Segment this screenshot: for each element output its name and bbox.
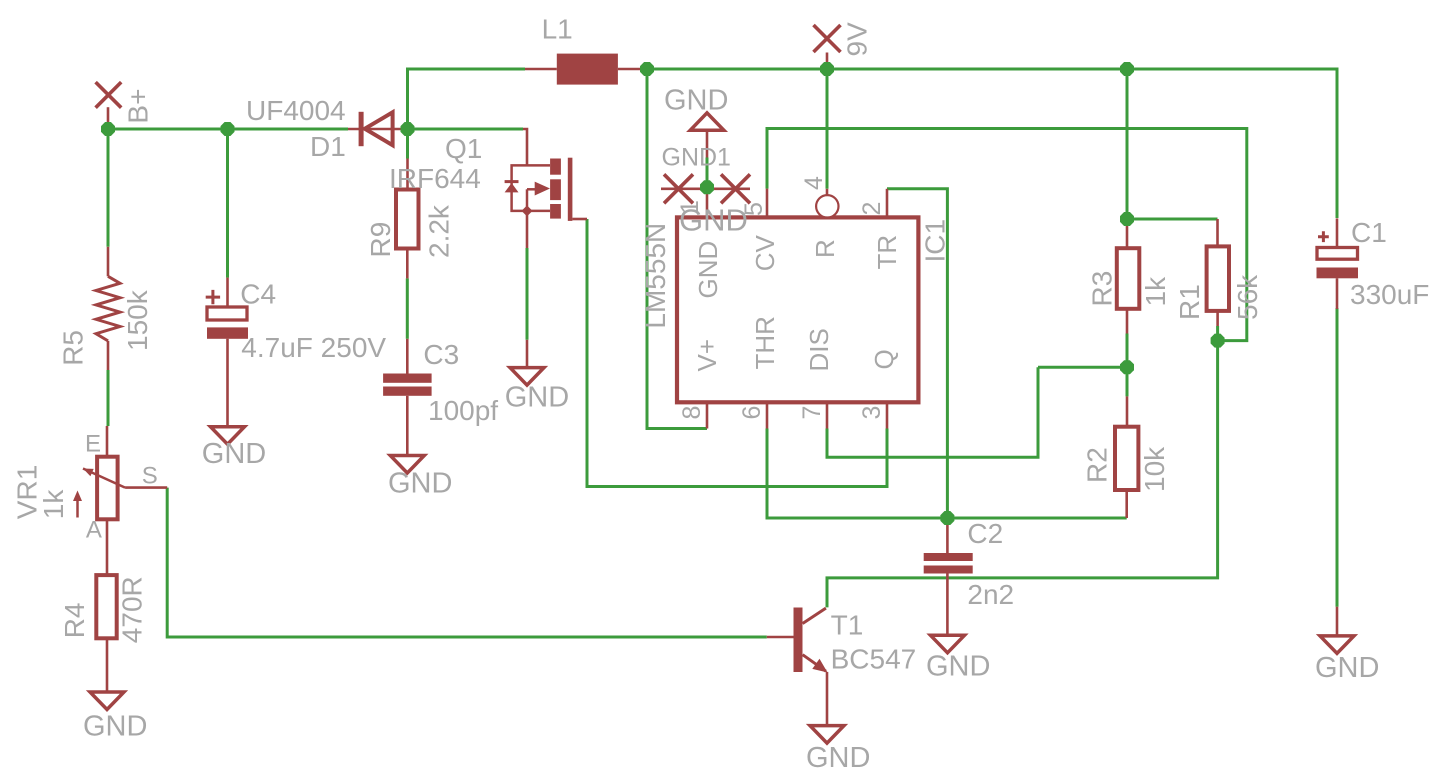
svg-text:D1: D1	[310, 131, 346, 162]
svg-text:BC547: BC547	[831, 643, 917, 674]
svg-text:UF4004: UF4004	[246, 95, 346, 126]
svg-text:2.2k: 2.2k	[424, 204, 455, 258]
svg-text:GND1: GND1	[662, 144, 731, 172]
svg-text:56k: 56k	[1232, 274, 1263, 320]
svg-text:R9: R9	[365, 222, 396, 258]
svg-text:150k: 150k	[122, 289, 153, 351]
svg-text:IRF644: IRF644	[389, 163, 481, 194]
svg-text:L1: L1	[542, 14, 573, 45]
svg-text:C4: C4	[240, 278, 276, 309]
svg-text:LM555N: LM555N	[640, 223, 671, 329]
svg-text:CV: CV	[750, 235, 780, 272]
svg-text:R2: R2	[1082, 447, 1113, 483]
svg-text:GND: GND	[505, 381, 569, 413]
svg-text:100pf: 100pf	[428, 395, 498, 426]
svg-text:2: 2	[858, 202, 886, 216]
svg-text:R: R	[810, 239, 840, 258]
svg-text:Q: Q	[869, 349, 899, 369]
svg-text:R3: R3	[1087, 271, 1118, 307]
svg-text:TR: TR	[872, 235, 902, 270]
svg-text:GND: GND	[664, 85, 728, 117]
svg-text:R1: R1	[1174, 284, 1205, 320]
svg-text:THR: THR	[750, 316, 780, 369]
svg-text:E: E	[85, 431, 101, 458]
svg-text:R5: R5	[58, 330, 89, 366]
svg-text:470R: 470R	[117, 576, 148, 643]
svg-text:10k: 10k	[1139, 446, 1170, 492]
svg-text:GND: GND	[806, 742, 870, 774]
svg-text:GND: GND	[83, 710, 147, 742]
svg-text:6: 6	[738, 406, 766, 420]
svg-text:S: S	[142, 462, 158, 489]
svg-text:2n2: 2n2	[967, 579, 1014, 610]
svg-text:T1: T1	[831, 609, 864, 640]
svg-text:V+: V+	[692, 339, 722, 372]
svg-text:GND: GND	[202, 438, 266, 470]
svg-text:3: 3	[858, 406, 886, 420]
svg-text:C1: C1	[1351, 217, 1387, 248]
svg-text:GND: GND	[1315, 652, 1379, 684]
svg-text:IC1: IC1	[920, 219, 951, 263]
svg-text:1k: 1k	[1140, 276, 1171, 307]
svg-text:GND: GND	[926, 650, 990, 682]
svg-text:R4: R4	[59, 603, 90, 639]
svg-text:7: 7	[798, 406, 826, 420]
svg-text:Q1: Q1	[445, 133, 482, 164]
svg-text:5: 5	[740, 202, 768, 216]
svg-text:A: A	[86, 517, 102, 544]
svg-text:330uF: 330uF	[1350, 279, 1429, 310]
svg-text:C2: C2	[967, 518, 1003, 549]
svg-text:4: 4	[800, 176, 828, 190]
svg-text:1: 1	[676, 200, 704, 214]
svg-text:9V: 9V	[842, 22, 873, 57]
svg-text:DIS: DIS	[804, 328, 834, 371]
svg-text:GND: GND	[693, 241, 723, 299]
svg-text:1k: 1k	[38, 489, 69, 520]
svg-text:B+: B+	[123, 89, 154, 124]
svg-text:4.7uF 250V: 4.7uF 250V	[241, 332, 386, 363]
svg-text:GND: GND	[388, 468, 452, 500]
svg-text:8: 8	[678, 406, 706, 420]
svg-text:C3: C3	[423, 339, 459, 370]
